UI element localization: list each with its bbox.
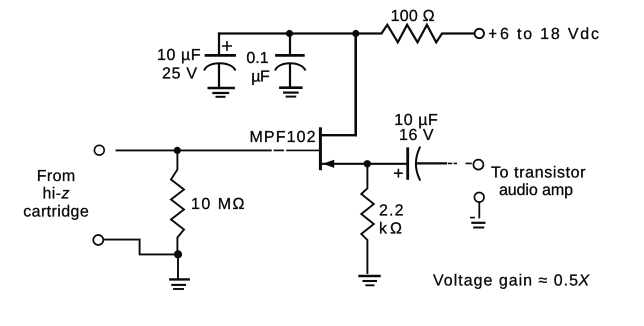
svg-text:To transistor: To transistor [491, 164, 586, 181]
svg-text:MPF102: MPF102 [250, 129, 316, 146]
svg-text:16 V: 16 V [399, 127, 434, 144]
svg-text:0.1: 0.1 [246, 50, 268, 67]
svg-text:25 V: 25 V [162, 65, 197, 82]
svg-text:10 µF: 10 µF [157, 47, 201, 64]
svg-text:100 Ω: 100 Ω [391, 8, 435, 25]
svg-text:From: From [37, 168, 76, 185]
svg-text:audio amp: audio amp [499, 182, 573, 199]
svg-text:2.2: 2.2 [379, 203, 404, 220]
svg-text:10 MΩ: 10 MΩ [191, 196, 245, 213]
svg-text:Voltage gain ≈ 0.5: Voltage gain ≈ 0.5 [433, 273, 578, 290]
svg-text:cartridge: cartridge [23, 204, 89, 221]
svg-text:µF: µF [251, 68, 270, 85]
svg-text:X: X [578, 273, 591, 290]
svg-text:kΩ: kΩ [379, 221, 402, 238]
svg-text:hi-z: hi-z [43, 186, 70, 203]
